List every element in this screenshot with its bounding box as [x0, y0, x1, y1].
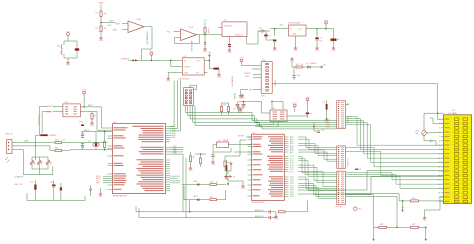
wire under U3 — [263, 122, 274, 125]
junction — [274, 28, 276, 30]
wire — [228, 103, 230, 107]
svg-text:LINE_OUT: LINE_OUT — [14, 184, 24, 186]
wire — [53, 111, 63, 113]
cap marks on wire — [228, 43, 231, 46]
wire — [241, 64, 243, 66]
svg-text:1k: 1k — [301, 64, 303, 66]
wire — [90, 185, 92, 189]
wire fan SV4 down — [346, 194, 411, 201]
svg-text:VCC: VCC — [149, 51, 154, 53]
transducer M1 — [61, 45, 62, 49]
svg-text:R2: R2 — [96, 28, 98, 30]
wire — [47, 157, 49, 161]
wire — [100, 5, 102, 12]
VCC symbol — [325, 21, 328, 26]
svg-text:SLA7062: SLA7062 — [224, 25, 232, 28]
wire — [84, 196, 86, 201]
supply arrow — [313, 125, 315, 128]
wire — [208, 57, 210, 61]
wire — [38, 169, 40, 175]
wire into U2 — [205, 34, 222, 36]
IC U6 right pin stubs — [284, 136, 288, 138]
resistor R6 — [296, 66, 303, 68]
svg-text:12: 12 — [438, 166, 440, 168]
wire xtal2 — [234, 151, 252, 153]
svg-text:MV-6: MV-6 — [262, 96, 266, 98]
connector X1 pins — [8, 142, 9, 143]
svg-text:PB5: PB5 — [172, 137, 175, 139]
wire — [424, 210, 426, 216]
wire — [310, 66, 319, 68]
svg-text:C7: C7 — [310, 113, 312, 115]
LCD pin stubs — [441, 118, 444, 120]
ground — [90, 121, 93, 124]
svg-text:R21: R21 — [380, 224, 383, 226]
svg-text:1k/4W: 1k/4W — [207, 28, 209, 33]
wire — [265, 30, 270, 32]
svg-text:C10: C10 — [30, 182, 33, 184]
wire — [224, 156, 226, 161]
resistor R7 — [189, 156, 191, 162]
wire — [204, 33, 206, 42]
svg-text:VSS: VSS — [422, 220, 427, 222]
wire — [12, 142, 55, 144]
wire bottom — [27, 200, 85, 202]
svg-text:LED3: LED3 — [193, 196, 198, 198]
wire — [35, 135, 37, 160]
wire — [418, 200, 443, 202]
svg-text:AN0: AN0 — [113, 28, 117, 31]
svg-text:IC5A: IC5A — [137, 18, 142, 21]
svg-text:10u: 10u — [319, 41, 322, 43]
wire — [103, 182, 108, 184]
svg-text:PB3: PB3 — [173, 153, 176, 155]
wire — [293, 77, 295, 80]
wire — [272, 102, 283, 111]
wire — [82, 144, 84, 146]
wire — [60, 183, 62, 187]
ground — [66, 61, 69, 64]
svg-text:MRXD: MRXD — [84, 130, 90, 132]
trimmer R19 contrast — [422, 131, 427, 136]
wire to bottom bus 1 — [136, 154, 183, 212]
wire to IC1 pin — [102, 107, 108, 128]
wire — [31, 165, 33, 170]
ground — [189, 166, 192, 169]
wire XTAL2 rail — [81, 149, 113, 151]
wire — [224, 167, 226, 172]
IC U6 left pin names — [253, 136, 263, 137]
ground mark — [81, 143, 84, 145]
wire under U3 — [255, 122, 278, 127]
resistor R8 — [199, 158, 201, 164]
connector ISP JP1 — [184, 88, 194, 106]
ground — [217, 73, 220, 76]
wire — [258, 30, 262, 32]
connector SV4 pins — [338, 172, 339, 173]
wire — [230, 165, 232, 171]
wire — [265, 37, 267, 40]
svg-text:IC3: IC3 — [272, 108, 275, 110]
svg-text:10: 10 — [438, 158, 440, 160]
svg-text:C20: C20 — [321, 130, 324, 132]
resistor R20 — [410, 200, 418, 202]
svg-text:R20: R20 — [412, 198, 415, 200]
IC1 top-right net labels — [170, 126, 172, 128]
svg-text:M1: M1 — [57, 46, 60, 48]
wire — [333, 29, 335, 39]
resistor R3 — [204, 28, 206, 34]
wire — [212, 157, 214, 161]
wire — [402, 201, 404, 209]
svg-text:10k: 10k — [104, 28, 107, 30]
wire — [200, 154, 202, 158]
LED D5 pair on wire — [133, 59, 135, 61]
wire — [316, 29, 318, 38]
junction — [151, 60, 153, 62]
svg-text:UPL: UPL — [249, 89, 253, 91]
wire regulator input — [129, 59, 183, 61]
resistor R17 — [210, 199, 217, 201]
svg-text:20: 20 — [438, 201, 440, 203]
wire — [346, 195, 374, 228]
svg-text:VSS: VSS — [99, 40, 104, 42]
svg-text:VSS: VSS — [203, 51, 208, 53]
diode D7 — [230, 163, 232, 165]
wire op-amp input — [122, 23, 128, 25]
ground — [294, 46, 297, 49]
wire — [67, 37, 69, 41]
svg-text:4: 4 — [439, 132, 440, 134]
IC U6 left pin stubs — [248, 136, 252, 138]
junction — [104, 131, 106, 133]
svg-text:SERIAL: SERIAL — [233, 93, 236, 99]
svg-text:C14: C14 — [50, 182, 53, 184]
wire — [229, 144, 252, 146]
wire — [243, 102, 245, 105]
wire — [238, 110, 240, 113]
wire — [246, 136, 252, 138]
resistor R2 — [100, 26, 102, 32]
svg-text:R6: R6 — [296, 64, 298, 66]
wire fan staircase to LCD — [346, 117, 444, 146]
wire — [151, 57, 153, 60]
IC U1 left pin stubs — [108, 127, 113, 129]
wire — [228, 112, 230, 116]
svg-text:VSS: VSS — [166, 81, 171, 83]
wire — [53, 105, 63, 107]
diagonal marks under X1 — [5, 157, 8, 160]
svg-text:+4.5V: +4.5V — [107, 25, 113, 27]
LED AN — [197, 198, 200, 201]
opto OK1 inner pins — [65, 106, 68, 107]
ground — [273, 46, 276, 49]
svg-text:16: 16 — [438, 184, 440, 186]
supply arrow — [208, 54, 210, 57]
wire fan PC to SV4 — [298, 157, 337, 173]
svg-text:17: 17 — [438, 188, 440, 190]
svg-text:CMP: CMP — [109, 21, 114, 23]
wire — [200, 184, 210, 186]
IC U3 pin text — [273, 112, 278, 113]
svg-text:D2: D2 — [259, 27, 261, 29]
svg-text:AMPLIFIER2: AMPLIFIER2 — [190, 41, 193, 52]
svg-text:C8: C8 — [233, 109, 235, 111]
wire — [82, 132, 84, 134]
capacitor C16 — [268, 210, 270, 213]
svg-text:R9: R9 — [94, 116, 96, 118]
wire U2 stub — [218, 27, 222, 29]
VCC symbol — [240, 59, 243, 64]
wire to IC1 pin — [80, 112, 107, 131]
wire SV2 +5V stub — [346, 104, 350, 106]
opto OK1 box — [63, 104, 80, 117]
svg-text:10k: 10k — [416, 133, 419, 135]
wire regulator gnd — [295, 36, 297, 46]
IC U6 ATMEGA8535 box — [252, 134, 285, 200]
wire main bus to LCD — [272, 83, 443, 113]
ground — [315, 46, 318, 49]
supply arrow — [373, 238, 375, 241]
svg-text:MVCC: MVCC — [88, 105, 94, 107]
resistor R23 — [220, 107, 222, 112]
wire — [47, 165, 49, 170]
ground — [99, 36, 102, 39]
svg-text:15: 15 — [438, 179, 440, 181]
wire op-amp output — [197, 34, 206, 36]
wire — [303, 66, 308, 68]
svg-text:CMP: CMP — [116, 23, 121, 25]
wire — [292, 62, 296, 67]
LED TALK — [197, 183, 200, 186]
svg-text:D4: D4 — [322, 102, 324, 104]
svg-text:R14: R14 — [49, 162, 51, 165]
svg-text:100n: 100n — [297, 75, 301, 77]
wire — [227, 178, 229, 181]
svg-text:PT-LCD16: PT-LCD16 — [346, 158, 348, 166]
svg-text:COMRELE: COMRELE — [14, 177, 24, 179]
svg-text:3: 3 — [439, 127, 440, 129]
wire regulator output — [306, 28, 334, 30]
svg-text:R7: R7 — [193, 157, 195, 159]
wire — [50, 146, 55, 151]
wire — [227, 171, 229, 175]
wire long to LCD — [298, 177, 443, 195]
junction — [104, 149, 106, 151]
svg-text:Q1: Q1 — [88, 141, 90, 143]
wire — [316, 40, 318, 46]
wire — [314, 130, 317, 132]
svg-text:1: 1 — [439, 119, 440, 121]
wire — [265, 31, 267, 35]
svg-text:Q2: Q2 — [218, 140, 221, 142]
svg-text:9: 9 — [439, 153, 440, 155]
svg-text:MV-6W: MV-6W — [274, 80, 276, 86]
junction — [271, 101, 273, 103]
capacitor C7 — [306, 113, 309, 115]
wire — [213, 144, 217, 146]
svg-text:ON/OFF: ON/OFF — [184, 66, 190, 68]
wire — [63, 41, 65, 45]
wire — [271, 215, 276, 218]
wire U7 gnd — [168, 72, 182, 76]
wire — [95, 147, 97, 150]
svg-text:VCC: VCC — [239, 58, 244, 60]
resistor R11 — [55, 150, 62, 152]
wire — [38, 165, 40, 170]
svg-text:D3: D3 — [306, 63, 308, 65]
wire — [170, 177, 172, 179]
junction — [189, 211, 191, 213]
wire — [229, 36, 231, 48]
wire — [83, 96, 85, 107]
resistor R9 — [91, 114, 93, 120]
resistor R22 — [410, 226, 418, 228]
IC U3 box — [270, 110, 287, 122]
ground — [241, 184, 244, 187]
wire — [274, 42, 276, 46]
junction — [204, 34, 206, 36]
svg-text:VSS: VSS — [273, 50, 278, 52]
wire loop — [64, 41, 77, 58]
svg-text:VCC: VCC — [66, 31, 71, 33]
capacitor C20 — [317, 130, 320, 132]
capacitor C11 — [81, 133, 84, 135]
wire — [307, 103, 309, 113]
capacitor C17 — [268, 216, 270, 219]
wire — [374, 226, 379, 228]
wire — [242, 65, 262, 67]
wire op-amp input — [122, 29, 128, 31]
LED D5 bar — [40, 134, 47, 136]
ground — [99, 192, 102, 195]
wire riser to bus — [189, 200, 191, 212]
wire — [425, 197, 444, 210]
svg-text:8: 8 — [439, 149, 440, 151]
svg-text:R10: R10 — [55, 140, 58, 142]
wire reset net — [225, 140, 246, 156]
wire — [222, 102, 229, 104]
VCC symbol — [293, 104, 296, 109]
connector X1 — [7, 140, 13, 154]
wire — [91, 119, 93, 121]
svg-text:R1: R1 — [96, 13, 98, 15]
regulator IC4 7805 — [289, 25, 307, 36]
svg-text:R12: R12 — [33, 162, 35, 165]
svg-text:LCD NMA: LCD NMA — [448, 112, 457, 115]
wire CMP — [101, 22, 116, 24]
svg-text:VSS: VSS — [66, 65, 71, 67]
svg-text:PC7: PC7 — [290, 171, 294, 173]
wire FB — [204, 71, 207, 73]
svg-text:R13: R13 — [40, 162, 42, 165]
svg-text:R23: R23 — [223, 105, 226, 107]
wire — [209, 60, 213, 68]
svg-text:R11: R11 — [55, 148, 58, 150]
wire — [204, 22, 206, 28]
wire — [170, 180, 172, 182]
wire — [218, 69, 220, 73]
svg-text:LED2: LED2 — [193, 181, 198, 183]
VCC symbol — [306, 98, 309, 103]
svg-text:OK1: OK1 — [64, 102, 68, 104]
wire to LCD pin1 — [438, 113, 444, 119]
connector ISP pins — [185, 90, 187, 91]
wire — [313, 128, 315, 132]
wire — [326, 100, 328, 104]
wire — [26, 193, 28, 201]
wire — [138, 208, 140, 218]
capacitor C14 — [52, 185, 55, 187]
wire — [333, 41, 335, 46]
svg-text:ATMEGA8-16PI: ATMEGA8-16PI — [113, 194, 128, 197]
svg-text:RelayOut: RelayOut — [235, 33, 243, 36]
wire — [253, 74, 261, 76]
IC U2 box — [222, 22, 247, 37]
wire bottom bus 2b — [186, 217, 268, 219]
diode D9 — [237, 108, 239, 110]
wire — [200, 199, 210, 201]
capacitor C5 — [315, 38, 318, 40]
ground — [332, 46, 335, 49]
capacitor C19 — [211, 154, 214, 156]
svg-text:RST: RST — [326, 126, 329, 128]
wire — [252, 68, 261, 70]
wire — [237, 102, 239, 105]
svg-text:U2: U2 — [224, 20, 226, 22]
wire — [195, 153, 206, 155]
svg-text:MRXD2: MRXD2 — [47, 106, 53, 108]
connector SV1 — [261, 62, 272, 94]
svg-text:S1: S1 — [233, 177, 235, 179]
capacitor C18 — [226, 165, 228, 171]
junction — [316, 28, 318, 30]
junction — [170, 60, 172, 62]
wire pot top — [424, 113, 438, 131]
capacitor C1 — [75, 48, 79, 50]
resistor R25 — [103, 142, 105, 148]
svg-text:VSS: VSS — [290, 61, 295, 63]
svg-text:RESET: RESET — [238, 135, 245, 137]
wire op-amp input — [174, 31, 181, 33]
capacitor C21 — [292, 75, 295, 77]
trimmer R13 — [37, 161, 41, 165]
wire — [12, 148, 23, 150]
wire — [238, 106, 244, 108]
wire — [182, 184, 197, 186]
capacitor C2 — [264, 35, 267, 37]
svg-text:VSS: VSS — [227, 52, 232, 54]
svg-text:U4: U4 — [452, 110, 454, 112]
wire fan AD to SV3 — [298, 137, 337, 148]
svg-text:LM2576-ADJ: LM2576-ADJ — [179, 77, 190, 80]
wire — [103, 177, 108, 179]
svg-text:VSS: VSS — [211, 164, 216, 166]
wire — [240, 89, 248, 91]
wire — [60, 190, 62, 200]
junction — [83, 106, 85, 108]
capacitor C8 — [236, 104, 240, 106]
svg-text:AD7: AD7 — [290, 151, 294, 154]
svg-text:PD9: PD9 — [290, 196, 294, 198]
wire — [53, 187, 55, 201]
VCC symbol — [67, 33, 70, 38]
connector SV4 — [337, 171, 346, 204]
svg-text:VSS: VSS — [293, 50, 298, 52]
wire op-amp output — [144, 26, 152, 28]
junction — [425, 227, 427, 229]
svg-text:IN MODULE: IN MODULE — [37, 115, 39, 126]
